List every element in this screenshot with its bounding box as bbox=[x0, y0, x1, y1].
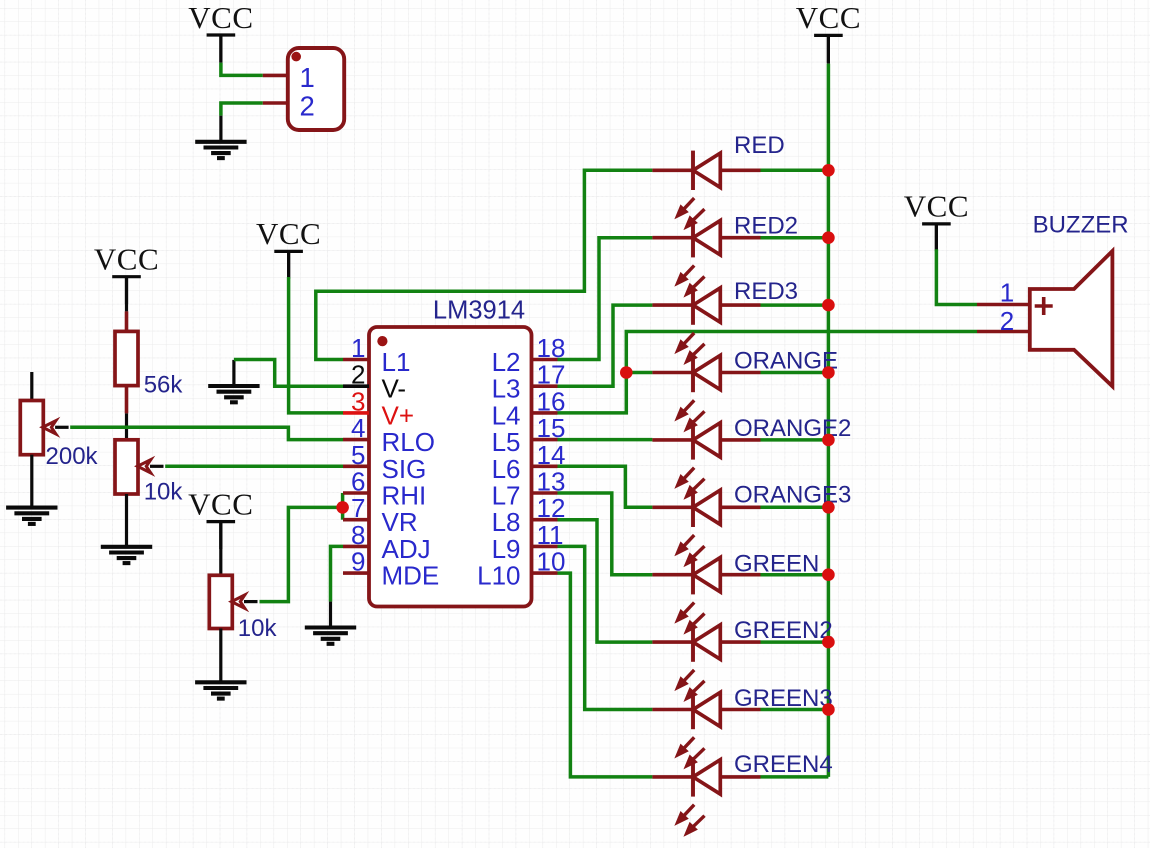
junction bus/GREEN2 bbox=[822, 636, 835, 649]
junction bus/RED bbox=[822, 164, 835, 177]
potentiometer 10k (RP2) bbox=[209, 575, 257, 628]
wire L3 to RED3 bbox=[558, 305, 653, 386]
wire 200k top stub (black) bbox=[30, 372, 33, 401]
svg-text:10k: 10k bbox=[144, 478, 184, 505]
wire bus stem (black) bbox=[827, 35, 830, 63]
wire VCC stem (black) bbox=[935, 224, 938, 249]
wire L7 to GREEN bbox=[558, 493, 653, 575]
pin 7 VR bbox=[343, 493, 418, 537]
svg-text:MDE: MDE bbox=[382, 561, 440, 591]
power symbol VCC (LED bus) bbox=[814, 35, 843, 62]
svg-text:6: 6 bbox=[351, 467, 365, 497]
svg-text:2: 2 bbox=[1000, 306, 1014, 336]
svg-text:L8: L8 bbox=[492, 507, 521, 537]
svg-text:9: 9 bbox=[351, 547, 365, 577]
buzzer BUZZER bbox=[977, 211, 1129, 386]
power symbol VCC (56k) bbox=[112, 277, 141, 304]
wire V- to ground bbox=[234, 360, 343, 387]
svg-text:ADJ: ADJ bbox=[382, 534, 431, 564]
junction RHI/VR/wiper bbox=[336, 501, 349, 514]
svg-text:VCC: VCC bbox=[256, 216, 321, 251]
pin 11 L9 bbox=[492, 520, 564, 564]
wire L9 to GREEN3 bbox=[558, 546, 653, 709]
svg-text:L7: L7 bbox=[492, 481, 521, 511]
potentiometer 10k (RP1) bbox=[115, 440, 164, 494]
svg-text:GREEN2: GREEN2 bbox=[734, 617, 833, 644]
wire GREEN4 anode to bus bbox=[761, 775, 829, 779]
svg-text:BUZZER: BUZZER bbox=[1033, 211, 1129, 238]
svg-text:ORANGE: ORANGE bbox=[734, 347, 838, 374]
wire VCC to 10k pot 2 (black) bbox=[219, 522, 222, 576]
svg-text:SIG: SIG bbox=[382, 454, 427, 484]
svg-text:L6: L6 bbox=[492, 454, 521, 484]
wire ORANGE anode to bus bbox=[761, 371, 829, 375]
svg-text:L1: L1 bbox=[382, 347, 411, 377]
svg-text:GREEN4: GREEN4 bbox=[734, 751, 833, 778]
ground symbol ground (200k pot) bbox=[6, 508, 57, 524]
junction bus/GREEN bbox=[822, 568, 835, 581]
wire L4 branch to ORANGE bbox=[626, 371, 652, 375]
svg-text:4: 4 bbox=[351, 413, 365, 443]
wire ground stem (black) bbox=[232, 360, 235, 386]
svg-text:1: 1 bbox=[1000, 278, 1014, 308]
svg-text:7: 7 bbox=[351, 493, 365, 523]
svg-text:L4: L4 bbox=[492, 400, 521, 430]
svg-text:RED: RED bbox=[734, 132, 785, 159]
junction bus/ORANGE2 bbox=[822, 434, 835, 447]
power symbol VCC (buzzer) bbox=[922, 224, 951, 251]
junction bus/RED2 bbox=[822, 231, 835, 244]
junction bus/ORANGE bbox=[822, 366, 835, 379]
wire connector pin 2 to ground bbox=[221, 103, 263, 116]
ground symbol ground (ADJ) bbox=[305, 628, 356, 644]
wire ADJ ground stem (black) bbox=[329, 602, 332, 628]
svg-text:VCC: VCC bbox=[188, 486, 253, 521]
ground symbol ground (V-) bbox=[208, 386, 259, 402]
pin 4 RLO bbox=[343, 413, 435, 457]
wire wiper to VR/RHI bbox=[260, 507, 343, 601]
wire VCC to 56k (black) bbox=[125, 277, 128, 312]
wire SIG: 10k wiper to pin 5 bbox=[165, 465, 343, 469]
LED RED bbox=[652, 132, 784, 229]
svg-text:200k: 200k bbox=[46, 443, 99, 470]
pin 13 L7 bbox=[492, 467, 566, 511]
svg-text:1: 1 bbox=[300, 62, 315, 93]
LED GREEN3 bbox=[652, 685, 832, 768]
wire RLO: 200k wiper to pin 4 bbox=[70, 427, 343, 439]
wire 200k to ground (black) bbox=[30, 455, 33, 508]
wire ORANGE2 anode to bus bbox=[761, 438, 829, 442]
svg-text:VCC: VCC bbox=[188, 0, 253, 35]
potentiometer 200k bbox=[20, 401, 68, 455]
svg-text:10k: 10k bbox=[238, 615, 278, 642]
svg-text:VCC: VCC bbox=[94, 242, 159, 277]
LED GREEN4 bbox=[652, 751, 832, 835]
power symbol VCC (10k pot 2) bbox=[207, 522, 236, 549]
ground symbol ground (connector) bbox=[195, 142, 246, 158]
svg-text:RED2: RED2 bbox=[734, 212, 798, 239]
wire VCC to connector pin 1 bbox=[221, 63, 263, 76]
pin 17 L3 bbox=[492, 360, 566, 404]
power symbol VCC (V+) bbox=[274, 251, 303, 278]
connector P1 bbox=[263, 48, 344, 130]
pin 5 SIG bbox=[343, 440, 426, 484]
wire L10 to GREEN4 bbox=[558, 573, 653, 777]
wire RED2 anode to bus bbox=[761, 236, 829, 240]
svg-text:L2: L2 bbox=[492, 347, 521, 377]
wire 10k pot 2 to ground (black) bbox=[219, 629, 222, 683]
pin 14 L6 bbox=[492, 440, 566, 484]
wire L8 to GREEN2 bbox=[558, 520, 653, 642]
svg-text:RHI: RHI bbox=[382, 481, 427, 511]
svg-text:V+: V+ bbox=[382, 400, 415, 430]
wire L4 to buzzer pin 2 bbox=[558, 332, 978, 413]
svg-text:RED3: RED3 bbox=[734, 278, 798, 305]
junction bus/RED3 bbox=[822, 299, 835, 312]
wire VCC stem (black) bbox=[287, 251, 290, 277]
LED RED3 bbox=[652, 278, 798, 363]
svg-text:GREEN3: GREEN3 bbox=[734, 685, 833, 712]
power symbol VCC (connector) bbox=[207, 35, 236, 62]
wire VCC stem (black) bbox=[219, 35, 222, 63]
svg-text:L10: L10 bbox=[477, 561, 520, 591]
wire L5 to ORANGE2 bbox=[558, 438, 653, 442]
svg-text:L5: L5 bbox=[492, 427, 521, 457]
wire VCC bus vertical bbox=[827, 64, 831, 777]
junction bus/ORANGE3 bbox=[822, 501, 835, 514]
wire VCC to buzzer pin 1 bbox=[936, 249, 977, 304]
svg-text:56k: 56k bbox=[144, 371, 184, 398]
svg-text:3: 3 bbox=[351, 386, 365, 416]
svg-text:8: 8 bbox=[351, 520, 365, 550]
pin 9 MDE bbox=[343, 547, 439, 591]
wire L1 to RED bbox=[316, 170, 653, 359]
svg-text:RLO: RLO bbox=[382, 427, 435, 457]
svg-text:VCC: VCC bbox=[796, 0, 861, 35]
pin 2 V- bbox=[343, 360, 406, 404]
resistor 56k leads bbox=[125, 311, 129, 413]
IC U1 LM3914 bbox=[369, 297, 532, 607]
pin 18 L2 bbox=[492, 333, 566, 377]
svg-text:2: 2 bbox=[300, 90, 315, 121]
pin 8 ADJ bbox=[343, 520, 431, 564]
svg-text:L3: L3 bbox=[492, 374, 521, 404]
svg-text:V-: V- bbox=[382, 374, 407, 404]
pin 1 L1 bbox=[343, 333, 410, 377]
pin 6 RHI bbox=[343, 467, 426, 511]
svg-text:L9: L9 bbox=[492, 534, 521, 564]
LED GREEN2 bbox=[652, 617, 832, 700]
wire ORANGE3 anode to bus bbox=[761, 506, 829, 510]
wire ADJ to ground bbox=[331, 546, 344, 601]
svg-text:5: 5 bbox=[351, 440, 365, 470]
svg-text:LM3914: LM3914 bbox=[433, 297, 525, 325]
ground symbol ground (10k pot 2) bbox=[195, 682, 246, 698]
wire GREEN3 anode to bus bbox=[761, 708, 829, 712]
junction L4/ORANGE bbox=[620, 366, 633, 379]
wire RED anode to bus bbox=[761, 169, 829, 173]
LED ORANGE3 bbox=[652, 481, 851, 565]
wire 56k to 10k pot (black) bbox=[125, 413, 128, 439]
wire RHI-VR link bbox=[341, 493, 345, 520]
wire to ground (black) bbox=[219, 116, 222, 142]
svg-text:1: 1 bbox=[351, 333, 365, 363]
svg-text:2: 2 bbox=[351, 360, 365, 390]
svg-text:GREEN: GREEN bbox=[734, 551, 819, 578]
ground symbol ground (10k pot) bbox=[101, 547, 152, 563]
wire V+ supply bbox=[289, 277, 344, 413]
pin 3 V+ bbox=[343, 386, 414, 430]
wire 10k pot to ground (black) bbox=[125, 494, 128, 547]
pin 12 L8 bbox=[492, 493, 566, 537]
LED RED2 bbox=[652, 212, 798, 296]
wire GREEN anode to bus bbox=[761, 573, 829, 577]
wire L6 to ORANGE3 bbox=[558, 466, 653, 507]
wire RED3 anode to bus bbox=[761, 303, 829, 307]
svg-text:VCC: VCC bbox=[904, 189, 969, 224]
junction bus/GREEN3 bbox=[822, 703, 835, 716]
pin 10 L10 bbox=[477, 547, 565, 591]
pin 15 L5 bbox=[492, 413, 566, 457]
pin 16 L4 bbox=[492, 386, 566, 430]
potentiometer 10k body bbox=[115, 440, 138, 494]
LED ORANGE bbox=[652, 347, 838, 430]
svg-text:VR: VR bbox=[382, 507, 418, 537]
LED GREEN bbox=[652, 551, 819, 633]
resistor 56k bbox=[115, 331, 138, 385]
LED ORANGE2 bbox=[652, 415, 851, 498]
wire L2 to RED2 bbox=[558, 238, 653, 360]
wire GREEN2 anode to bus bbox=[761, 640, 829, 644]
